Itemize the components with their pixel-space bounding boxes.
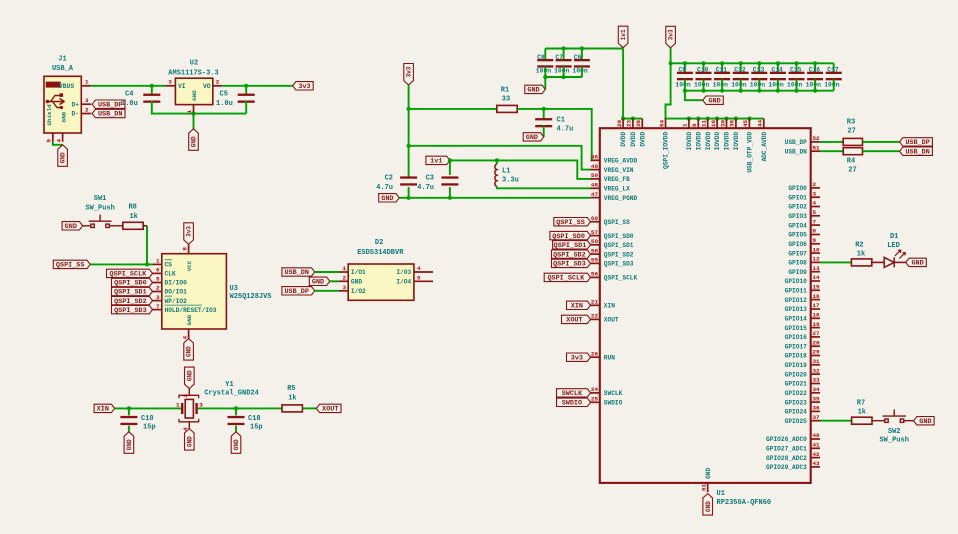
svg-text:QSPI_SD1: QSPI_SD1 xyxy=(114,289,147,297)
svg-text:GND: GND xyxy=(919,418,931,426)
svg-text:C13: C13 xyxy=(753,67,765,74)
svg-text:C2: C2 xyxy=(385,174,393,182)
svg-text:1: 1 xyxy=(682,123,689,127)
wire C3 bottom xyxy=(449,187,451,198)
capacitor C10 15p xyxy=(120,416,137,425)
svg-text:QSPI_SCLK: QSPI_SCLK xyxy=(110,271,148,279)
svg-text:GPIO15: GPIO15 xyxy=(785,325,808,332)
svg-text:100n: 100n xyxy=(768,81,784,88)
wire 3v3 bank gnd drop xyxy=(685,91,703,101)
label QSPI_SD0 at U1 xyxy=(550,231,591,239)
svg-text:8: 8 xyxy=(181,247,188,251)
wire C18 top xyxy=(235,408,237,415)
svg-text:4: 4 xyxy=(181,336,188,340)
svg-text:61: 61 xyxy=(701,483,708,491)
svg-text:DO/IO1: DO/IO1 xyxy=(165,289,188,296)
label GND at C1 xyxy=(523,133,544,141)
svg-text:DVDD: DVDD xyxy=(620,132,627,147)
svg-text:16: 16 xyxy=(813,293,821,300)
wire R4 to USB_DN label xyxy=(863,150,900,152)
svg-text:100n: 100n xyxy=(694,81,710,88)
label GND at 1v1 bank xyxy=(525,85,546,93)
resistor R1 33 xyxy=(497,105,517,112)
svg-text:GND: GND xyxy=(381,195,393,203)
regulator U2 AMS1117S-3.3 body xyxy=(175,78,212,104)
svg-text:USB_OTP_VDD: USB_OTP_VDD xyxy=(747,132,754,173)
svg-text:22: 22 xyxy=(591,313,599,320)
svg-text:18: 18 xyxy=(813,312,821,319)
svg-text:60: 60 xyxy=(591,215,599,222)
svg-text:USB_DP: USB_DP xyxy=(905,139,929,147)
svg-text:GND: GND xyxy=(186,346,193,357)
svg-text:U3: U3 xyxy=(230,285,238,293)
esd diode D2 pins xyxy=(339,272,433,291)
svg-text:SW_Push: SW_Push xyxy=(85,205,114,213)
svg-text:Crystal_GND24: Crystal_GND24 xyxy=(204,390,259,398)
junction IOVDD pins xyxy=(687,117,752,121)
capacitor C2 4.7u xyxy=(400,176,417,185)
svg-text:J1: J1 xyxy=(58,56,66,64)
svg-text:U2: U2 xyxy=(190,60,198,68)
svg-text:5: 5 xyxy=(46,139,53,143)
svg-text:GND: GND xyxy=(186,370,193,381)
flash U3 pins xyxy=(153,244,189,338)
wire GPIO USB_DP to R3 xyxy=(820,141,843,143)
svg-text:15p: 15p xyxy=(250,423,263,431)
svg-text:28: 28 xyxy=(813,339,821,346)
wire C6 bottom xyxy=(581,66,583,77)
svg-text:VCC: VCC xyxy=(186,260,193,271)
svg-text:ADC_AVDD: ADC_AVDD xyxy=(761,132,768,162)
svg-text:44: 44 xyxy=(757,119,764,127)
junction vreg gnd rail xyxy=(407,196,453,200)
label USB_DP at J1 xyxy=(92,100,125,108)
capacitor C17 100n xyxy=(826,72,842,81)
svg-text:GPIO14: GPIO14 xyxy=(785,316,808,323)
svg-text:1: 1 xyxy=(85,79,89,86)
wire 3v3 to IOVDD pins xyxy=(666,63,764,118)
power GND below U1 xyxy=(703,494,713,515)
wire C7 bottom xyxy=(563,66,565,77)
svg-text:GPIO13: GPIO13 xyxy=(785,306,808,313)
svg-text:GPIO26_ADC0: GPIO26_ADC0 xyxy=(766,436,807,443)
svg-text:GPIO2: GPIO2 xyxy=(788,204,807,211)
wire R8 down to QSPI_SS xyxy=(146,226,148,265)
svg-text:C11: C11 xyxy=(716,67,728,74)
label QSPI_SD0 at flash xyxy=(112,278,153,286)
svg-text:WP/IO2: WP/IO2 xyxy=(165,298,188,305)
svg-text:21: 21 xyxy=(591,299,599,306)
resistor R2 1k xyxy=(851,259,871,266)
svg-text:10: 10 xyxy=(813,246,821,253)
svg-text:C3: C3 xyxy=(426,174,434,182)
svg-text:100n: 100n xyxy=(806,81,822,88)
wire C15 top xyxy=(796,63,798,73)
label GND at SW1 xyxy=(62,222,83,230)
label USB_DN right xyxy=(900,147,933,155)
junction 1v1 rail top xyxy=(562,46,585,50)
regulator U2 pin stubs xyxy=(166,86,223,113)
svg-text:QSPI_SD0: QSPI_SD0 xyxy=(552,233,585,241)
label SWCLK at U1 xyxy=(557,389,591,397)
svg-text:C6: C6 xyxy=(574,54,582,61)
junction VO at C5 xyxy=(244,84,248,88)
wire C6 top xyxy=(581,49,583,61)
svg-text:IOVDD: IOVDD xyxy=(705,132,712,151)
svg-text:GPIO7: GPIO7 xyxy=(788,250,807,257)
svg-text:C9: C9 xyxy=(678,67,686,74)
svg-text:SWDIO: SWDIO xyxy=(604,400,623,407)
svg-text:SWCLK: SWCLK xyxy=(562,390,583,398)
svg-text:4.7u: 4.7u xyxy=(417,184,434,192)
svg-text:36: 36 xyxy=(813,405,821,412)
wire R1 to VREG_AVDD xyxy=(517,109,592,160)
label USB_DP right xyxy=(900,138,933,146)
svg-text:100n: 100n xyxy=(554,68,570,75)
svg-text:IOVDD: IOVDD xyxy=(714,132,721,151)
svg-text:C14: C14 xyxy=(771,67,783,74)
junction VBUS at C4 xyxy=(150,84,154,88)
svg-text:XOUT: XOUT xyxy=(604,317,619,324)
svg-text:GPIO16: GPIO16 xyxy=(785,334,808,341)
svg-text:GPIO19: GPIO19 xyxy=(785,362,808,369)
svg-text:QSPI_SD1: QSPI_SD1 xyxy=(554,242,587,250)
svg-text:SW2: SW2 xyxy=(888,428,901,436)
svg-text:CS: CS xyxy=(165,262,173,269)
wire 3v3 to VREG_VIN xyxy=(409,146,591,170)
svg-text:XIN: XIN xyxy=(97,406,109,414)
svg-text:GPIO5: GPIO5 xyxy=(788,232,807,239)
svg-text:GND: GND xyxy=(312,279,324,287)
wire C10 top xyxy=(703,63,705,73)
wire C14 top xyxy=(777,63,779,73)
svg-text:GPIO11: GPIO11 xyxy=(785,288,808,295)
svg-text:50: 50 xyxy=(591,172,599,179)
svg-text:GND: GND xyxy=(191,136,198,147)
connector J1 USB icon xyxy=(46,82,65,109)
svg-text:Y1: Y1 xyxy=(225,381,233,389)
svg-text:XIN: XIN xyxy=(604,303,615,310)
wire C10 bottom xyxy=(128,426,130,432)
label XIN at U1 xyxy=(567,301,591,309)
svg-text:C4: C4 xyxy=(125,91,133,99)
wire VBUS to U2 VI xyxy=(91,85,165,87)
svg-text:C17: C17 xyxy=(827,67,839,74)
svg-text:32: 32 xyxy=(813,367,821,374)
svg-text:D-: D- xyxy=(71,111,79,118)
svg-text:100n: 100n xyxy=(824,81,840,88)
capacitor C8 100n xyxy=(537,59,553,68)
wire C8 bottom xyxy=(544,66,546,77)
svg-text:AMS1117S-3.3: AMS1117S-3.3 xyxy=(168,69,218,77)
svg-text:1k: 1k xyxy=(857,250,865,258)
svg-text:GND: GND xyxy=(911,260,923,268)
capacitor C15 100n xyxy=(789,72,805,81)
switch SW1 SW_Push xyxy=(83,215,124,228)
svg-text:3v3: 3v3 xyxy=(668,29,675,40)
svg-text:LED: LED xyxy=(887,242,900,250)
wire C15 bottom xyxy=(796,79,798,91)
svg-text:USB_DN: USB_DN xyxy=(284,269,308,277)
junction R1 at C1 xyxy=(542,107,546,111)
svg-text:100n: 100n xyxy=(731,81,747,88)
svg-text:QSPI_SS: QSPI_SS xyxy=(604,219,630,226)
svg-text:QSPI_SD2: QSPI_SD2 xyxy=(553,251,586,259)
capacitor C4 1.0u xyxy=(143,94,160,103)
svg-text:3v3: 3v3 xyxy=(186,226,193,237)
svg-text:GND: GND xyxy=(705,467,712,478)
wire C11 bottom xyxy=(721,79,723,91)
mcu U1 bottom gnd pin xyxy=(707,483,709,492)
svg-text:C12: C12 xyxy=(734,67,746,74)
svg-text:5: 5 xyxy=(156,276,160,283)
label QSPI_SS at U1 xyxy=(554,218,591,226)
capacitor C13 100n xyxy=(751,72,767,81)
wire 3v3 down to cap rail xyxy=(670,48,672,64)
capacitor C14 100n xyxy=(770,72,786,81)
label GND at 3v3 bank xyxy=(703,96,724,104)
power 3v3 at RUN pin xyxy=(567,353,591,361)
wire C16 bottom xyxy=(814,79,816,91)
label GND at vreg rail xyxy=(379,194,400,202)
junction 3v3 rail xyxy=(407,107,411,148)
svg-text:VREG_PGND: VREG_PGND xyxy=(604,195,638,202)
svg-text:48: 48 xyxy=(591,182,599,189)
svg-text:I/O2: I/O2 xyxy=(351,288,366,295)
svg-text:C15: C15 xyxy=(790,67,802,74)
capacitor C5 1.0u xyxy=(238,94,255,103)
svg-text:1: 1 xyxy=(186,110,193,114)
power GND below C18 xyxy=(231,432,241,454)
wire 3v3 cap rail bottom xyxy=(685,90,834,92)
junction gnd rail U2 xyxy=(191,112,195,116)
svg-text:56: 56 xyxy=(591,271,599,278)
svg-text:GND: GND xyxy=(705,501,712,512)
label GND at D1 xyxy=(906,258,927,266)
power GND below J1 xyxy=(58,145,68,167)
svg-text:USB_DP: USB_DP xyxy=(284,288,308,296)
wire 3v3 cap rail top xyxy=(671,62,834,64)
svg-text:100n: 100n xyxy=(536,68,552,75)
power 3v3 top xyxy=(666,26,676,48)
wire U2 VO to 3v3 xyxy=(222,85,293,87)
svg-text:41: 41 xyxy=(813,442,821,449)
svg-text:45: 45 xyxy=(742,119,749,127)
svg-text:3v3: 3v3 xyxy=(298,83,310,91)
resistor R7 1k xyxy=(852,417,872,424)
svg-text:GND: GND xyxy=(61,111,68,122)
wire C8 top xyxy=(544,49,546,61)
svg-text:SW1: SW1 xyxy=(94,195,107,203)
capacitor C12 100n xyxy=(733,72,749,81)
svg-text:2: 2 xyxy=(85,106,89,113)
svg-text:GND: GND xyxy=(233,439,240,450)
svg-text:GPIO20: GPIO20 xyxy=(785,371,808,378)
svg-text:1: 1 xyxy=(156,258,160,265)
capacitor C3 4.7u xyxy=(441,176,458,185)
mcu U1 left pins xyxy=(591,160,600,402)
wire GPIO25 to R7 xyxy=(820,420,852,422)
svg-text:GND: GND xyxy=(527,87,539,95)
label QSPI_SD1 at flash xyxy=(112,287,153,295)
wire R5 to XOUT xyxy=(302,407,316,409)
svg-text:GPIO12: GPIO12 xyxy=(785,297,808,304)
wire C3 top xyxy=(449,160,451,175)
connector J1 pin stubs xyxy=(53,86,91,142)
svg-text:13: 13 xyxy=(813,265,821,272)
crystal Y1 Crystal_GND24 xyxy=(179,389,199,429)
power 3v3 above U3 xyxy=(184,223,194,245)
capacitor C9 100n xyxy=(677,72,693,81)
svg-text:55: 55 xyxy=(591,257,599,264)
label QSPI_SD2 at U1 xyxy=(552,250,591,258)
inductor L1 3.3u xyxy=(495,164,497,186)
wire GND to D2 xyxy=(330,280,339,282)
power 3v3 right of U2 xyxy=(293,82,314,90)
svg-text:GPIO27_ADC1: GPIO27_ADC1 xyxy=(766,446,807,453)
svg-text:1: 1 xyxy=(176,402,180,409)
power 3v3 at vreg xyxy=(404,64,414,86)
svg-text:USB_DN: USB_DN xyxy=(785,148,808,155)
svg-text:HOLD/RESET/IO3: HOLD/RESET/IO3 xyxy=(165,307,217,314)
wire U2 GND drop xyxy=(193,114,195,129)
svg-text:QSPI_SS: QSPI_SS xyxy=(556,219,585,227)
wire 1v1 cap rail top xyxy=(545,48,623,50)
svg-text:11: 11 xyxy=(701,119,708,127)
wire C16 top xyxy=(814,63,816,73)
svg-text:C16: C16 xyxy=(809,67,821,74)
wire R2 to D1 xyxy=(872,261,884,263)
svg-text:9: 9 xyxy=(813,237,817,244)
wire C12 top xyxy=(740,63,742,73)
svg-text:1.0u: 1.0u xyxy=(216,100,233,108)
svg-text:GPIO21: GPIO21 xyxy=(785,381,808,388)
svg-text:54: 54 xyxy=(658,119,665,127)
svg-text:1.0u: 1.0u xyxy=(121,100,138,108)
svg-text:W25Q128JVS: W25Q128JVS xyxy=(230,293,272,301)
svg-text:58: 58 xyxy=(591,247,599,254)
svg-text:I/O4: I/O4 xyxy=(396,279,411,286)
svg-text:8: 8 xyxy=(813,228,817,235)
wire XIN to crystal xyxy=(115,407,181,409)
capacitor C6 100n xyxy=(574,59,590,68)
wire C13 bottom xyxy=(758,79,760,91)
svg-text:5: 5 xyxy=(813,209,817,216)
wire 1v1 bank gnd drop xyxy=(544,77,546,89)
svg-text:DVDD: DVDD xyxy=(639,132,646,147)
label USB_DP at D2 xyxy=(282,287,315,295)
led D1 xyxy=(884,250,905,267)
label QSPI_SD1 at U1 xyxy=(553,241,591,249)
svg-text:VREG_LX: VREG_LX xyxy=(604,186,630,193)
wire C1 bottom xyxy=(543,126,545,137)
wire C17 top xyxy=(833,63,835,73)
svg-text:16: 16 xyxy=(710,119,717,127)
wire R8 to corner xyxy=(143,225,147,227)
svg-text:6: 6 xyxy=(156,267,160,274)
svg-text:GPIO29_ADC3: GPIO29_ADC3 xyxy=(766,464,807,471)
svg-text:QSPI_SCLK: QSPI_SCLK xyxy=(547,275,585,283)
svg-text:USB_A: USB_A xyxy=(52,65,74,73)
svg-text:2: 2 xyxy=(216,79,220,86)
svg-text:USB_DP: USB_DP xyxy=(98,101,122,109)
wire L1 to VREG_LX xyxy=(497,186,591,188)
svg-text:3.3u: 3.3u xyxy=(502,176,519,184)
label QSPI_SD3 at flash xyxy=(112,305,153,313)
svg-text:GPIO6: GPIO6 xyxy=(788,241,807,248)
svg-text:33: 33 xyxy=(813,377,821,384)
svg-text:29: 29 xyxy=(813,349,821,356)
svg-text:5: 5 xyxy=(417,275,421,282)
svg-text:GND: GND xyxy=(60,152,67,163)
wire J1 shield to gnd xyxy=(53,142,63,145)
svg-text:D1: D1 xyxy=(890,233,898,241)
label USB_DN at J1 xyxy=(92,109,125,117)
svg-text:QSPI_IOVDD: QSPI_IOVDD xyxy=(663,132,670,169)
svg-text:3: 3 xyxy=(85,97,89,104)
svg-text:59: 59 xyxy=(591,238,599,245)
svg-text:QSPI_SD0: QSPI_SD0 xyxy=(114,280,147,288)
label XOUT at U1 xyxy=(562,315,591,323)
svg-text:2: 2 xyxy=(182,394,189,398)
svg-text:27: 27 xyxy=(847,127,855,135)
svg-text:GPIO17: GPIO17 xyxy=(785,343,808,350)
svg-text:GND: GND xyxy=(186,314,193,325)
svg-text:4.7u: 4.7u xyxy=(557,125,574,133)
svg-text:GPIO25: GPIO25 xyxy=(785,418,808,425)
connector J1 USB_A body xyxy=(44,76,81,133)
wire R3 to USB_DP label xyxy=(863,141,900,143)
svg-text:7: 7 xyxy=(813,218,817,225)
svg-text:1v1: 1v1 xyxy=(620,29,627,40)
svg-text:R8: R8 xyxy=(128,204,136,212)
switch SW2 SW_Push xyxy=(872,410,914,423)
flash U3 W25Q128JVS body xyxy=(162,254,227,329)
svg-text:IOVDD: IOVDD xyxy=(686,132,693,151)
svg-text:49: 49 xyxy=(591,163,599,170)
svg-text:1v1: 1v1 xyxy=(430,158,442,166)
capacitor C7 100n xyxy=(556,59,572,68)
svg-text:51: 51 xyxy=(813,144,821,151)
svg-text:D2: D2 xyxy=(375,239,383,247)
junction QSPI_SS xyxy=(145,262,149,266)
wire USB_DN to D2 xyxy=(315,271,339,273)
svg-text:38: 38 xyxy=(729,119,736,127)
wire C17 bottom xyxy=(833,79,835,91)
wire C4 top xyxy=(151,86,153,96)
svg-text:27: 27 xyxy=(848,167,856,175)
resistor R4 27 xyxy=(843,148,862,155)
svg-text:VREG_AVDD: VREG_AVDD xyxy=(604,158,638,165)
svg-text:GND: GND xyxy=(65,223,77,231)
svg-text:1: 1 xyxy=(342,265,346,272)
svg-text:57: 57 xyxy=(591,229,599,236)
svg-text:15p: 15p xyxy=(143,423,156,431)
label QSPI_SD2 at flash xyxy=(112,296,153,304)
svg-text:QSPI_SD3: QSPI_SD3 xyxy=(114,307,147,315)
junction 1v1 rail bottom xyxy=(543,75,566,79)
power GND below U3 xyxy=(184,339,194,361)
svg-text:GND: GND xyxy=(186,436,193,447)
svg-text:QSPI_SD3: QSPI_SD3 xyxy=(553,261,586,269)
svg-text:1k: 1k xyxy=(129,213,137,221)
svg-text:15: 15 xyxy=(813,284,821,291)
svg-text:24: 24 xyxy=(591,386,599,393)
wire C9 bottom xyxy=(684,79,686,91)
svg-text:19: 19 xyxy=(813,321,821,328)
svg-text:GND: GND xyxy=(126,439,133,450)
svg-text:GPIO18: GPIO18 xyxy=(785,353,808,360)
